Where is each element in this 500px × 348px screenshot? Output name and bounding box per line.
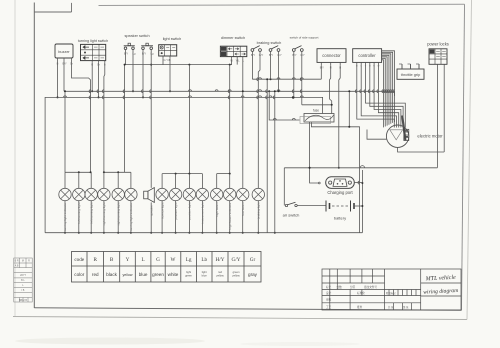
wire bus end drop to battery area bbox=[349, 91, 359, 232]
svg-text:A B: A B bbox=[15, 264, 19, 267]
wire side support pin1 bbox=[293, 51, 295, 97]
svg-text:blue: blue bbox=[139, 272, 148, 277]
lamp braking light bbox=[252, 188, 264, 233]
svg-text:fuse: fuse bbox=[313, 109, 319, 113]
svg-text:共 张: 共 张 bbox=[388, 305, 394, 309]
svg-text:B/Y: B/Y bbox=[142, 52, 146, 56]
svg-text:Y/L: Y/L bbox=[236, 58, 240, 62]
bus line y64 bbox=[125, 59, 232, 65]
wire controller bundle 3 bbox=[382, 54, 391, 124]
wire light sw pin to bar3 feed bbox=[188, 65, 190, 174]
wire buzzer pin2 to bus start bbox=[63, 62, 65, 92]
wire air switch riser bbox=[283, 168, 285, 204]
wire controller pin1 to motor bbox=[355, 62, 394, 127]
svg-text:position light: position light bbox=[174, 202, 178, 219]
svg-text:licence light: licence light bbox=[160, 202, 164, 218]
electric motor M1 bbox=[386, 116, 443, 148]
svg-text:instrument light: instrument light bbox=[201, 202, 205, 223]
svg-text:battery: battery bbox=[334, 216, 346, 221]
braking switch bbox=[251, 40, 282, 57]
svg-text:R: R bbox=[94, 257, 98, 263]
lamp right turning light bbox=[112, 188, 124, 233]
wire power locks pin2 bbox=[443, 64, 445, 152]
svg-text:标记: 标记 bbox=[326, 285, 332, 289]
lamp licence light bbox=[156, 188, 168, 233]
svg-text:light: light bbox=[202, 270, 207, 274]
power locks switch bbox=[427, 42, 449, 65]
wire braking sw2 left bbox=[270, 51, 272, 79]
wire controller pin4 to motor bbox=[368, 62, 403, 127]
wire controller pin5 to motor bbox=[373, 62, 401, 127]
charging loop top line y167.8 bbox=[284, 167, 437, 169]
color code table bbox=[72, 252, 262, 283]
wire controller bundle 5 bbox=[382, 57, 388, 126]
wire battery to charging vertical bbox=[361, 170, 363, 233]
wire controller pin3 to motor bbox=[364, 62, 405, 127]
wire fuse to motor weave bbox=[311, 123, 349, 127]
svg-text:LBYT: LBYT bbox=[20, 274, 27, 277]
svg-text:position light: position light bbox=[188, 202, 192, 219]
bus line y97.4 bbox=[45, 97, 323, 232]
svg-text:Lg: Lg bbox=[186, 257, 192, 263]
wire speaker sw2 right to speaker bbox=[150, 50, 152, 188]
lamp position light bbox=[183, 188, 195, 233]
svg-text:批准: 批准 bbox=[357, 305, 363, 309]
svg-text:high beam indicator: high beam indicator bbox=[228, 203, 232, 230]
svg-text:red: red bbox=[218, 270, 222, 274]
air switch bbox=[283, 202, 326, 217]
wire long vertical to bottom bus B bbox=[274, 91, 276, 232]
title block bbox=[322, 269, 461, 310]
svg-text:right turning light: right turning light bbox=[102, 202, 106, 225]
svg-text:turning light indicator: turning light indicator bbox=[129, 203, 133, 232]
bus line y79.2 bbox=[252, 78, 321, 80]
svg-text:turning light switch: turning light switch bbox=[78, 39, 108, 43]
wire power locks pin1 bbox=[436, 64, 438, 168]
fuse F1 bbox=[300, 109, 334, 124]
svg-text:green: green bbox=[233, 270, 240, 274]
svg-text:B/Y: B/Y bbox=[292, 53, 296, 57]
ground bus bottom bbox=[45, 232, 362, 234]
svg-text:标准化: 标准化 bbox=[357, 291, 365, 295]
wire bar2 mid feed bbox=[124, 65, 126, 173]
wire fuse feed line y104.8 bbox=[302, 105, 332, 114]
wire connector pin3 bbox=[339, 65, 340, 168]
wire braking sw1 left bbox=[251, 51, 253, 79]
wire buzzer pin1 down bbox=[57, 62, 59, 98]
lamp bar group4 bbox=[217, 173, 230, 175]
wire controller bundle 6 bbox=[382, 58, 386, 126]
svg-text:blue: blue bbox=[202, 274, 208, 278]
wire fuse bottom drop bbox=[310, 122, 319, 183]
svg-text:green: green bbox=[152, 272, 164, 277]
charging port bbox=[326, 177, 363, 195]
svg-text:color: color bbox=[74, 272, 84, 277]
svg-text:Charging port: Charging port bbox=[327, 190, 353, 195]
svg-text:left turning light: left turning light bbox=[89, 202, 93, 223]
svg-text:L: L bbox=[142, 257, 145, 263]
wire connector pin1 bbox=[320, 65, 322, 79]
svg-text:high beam: high beam bbox=[215, 202, 219, 217]
svg-text:switch of side support: switch of side support bbox=[290, 36, 319, 40]
wire TLS pin1 to bus bbox=[91, 63, 93, 92]
svg-text:I B: I B bbox=[21, 289, 24, 292]
svg-text:阶段标记: 阶段标记 bbox=[386, 291, 396, 295]
lamp bar group1 bbox=[65, 171, 91, 173]
lamp high beam bbox=[211, 188, 223, 233]
scan smudge bottom bbox=[15, 338, 205, 345]
svg-text:B/Y: B/Y bbox=[251, 53, 255, 57]
svg-text:light: light bbox=[186, 270, 191, 274]
controller pin labels bbox=[356, 66, 380, 68]
svg-text:G: G bbox=[156, 257, 160, 263]
svg-text:controller: controller bbox=[358, 53, 376, 58]
wire light switch pins bbox=[162, 58, 164, 64]
svg-text:white: white bbox=[168, 272, 179, 277]
svg-text:G/Y: G/Y bbox=[300, 53, 305, 57]
svg-text:electric motor: electric motor bbox=[417, 134, 443, 139]
wire speaker sw2 left down bbox=[142, 50, 144, 98]
lamp high beam indicator bbox=[224, 188, 236, 233]
svg-text:工艺: 工艺 bbox=[326, 305, 332, 309]
svg-text:处数: 处数 bbox=[337, 285, 343, 289]
svg-text:审核: 审核 bbox=[326, 297, 332, 301]
svg-text:BB12 B: BB12 B bbox=[19, 299, 28, 302]
svg-text:Lb: Lb bbox=[201, 257, 207, 263]
svg-text:green: green bbox=[185, 274, 192, 278]
svg-text:left turning light: left turning light bbox=[77, 202, 81, 223]
svg-text:air switch: air switch bbox=[283, 213, 300, 218]
lamp left turning light bbox=[73, 188, 85, 233]
svg-text:G/Y: G/Y bbox=[259, 53, 264, 57]
wire dimmer-fed bar4 feed bbox=[229, 65, 231, 174]
svg-text:gray: gray bbox=[248, 272, 258, 277]
wire motor bottom to power lock bbox=[398, 147, 445, 152]
buzzer bbox=[55, 44, 73, 66]
lamp turning light indicator bbox=[59, 188, 71, 233]
lamp bar group2 bbox=[104, 171, 131, 173]
wire controller bundle 7 bbox=[382, 60, 384, 128]
svg-text:power locks: power locks bbox=[427, 42, 449, 47]
svg-text:M: M bbox=[22, 259, 24, 262]
svg-text:yellow: yellow bbox=[216, 274, 224, 278]
svg-text:W: W bbox=[171, 257, 176, 263]
svg-text:B R: B R bbox=[15, 259, 19, 262]
svg-text:第 张: 第 张 bbox=[403, 305, 409, 309]
svg-text:braking light: braking light bbox=[257, 202, 261, 219]
light switch bbox=[159, 37, 182, 62]
dimmer switch bbox=[220, 36, 246, 62]
speaker SP1 bbox=[144, 188, 155, 234]
svg-text:dimmer switch: dimmer switch bbox=[221, 36, 245, 40]
svg-text:buzzer: buzzer bbox=[58, 50, 70, 54]
revision table (left margin) bbox=[14, 258, 32, 302]
svg-text:B/Y: B/Y bbox=[269, 53, 273, 57]
svg-text:B/Y: B/Y bbox=[320, 65, 324, 69]
svg-text:B/Y: B/Y bbox=[63, 62, 67, 66]
wire connector pin2 bbox=[330, 65, 332, 105]
svg-text:yellow: yellow bbox=[232, 274, 240, 278]
svg-text:right turning light: right turning light bbox=[116, 202, 120, 225]
svg-text:throttle grip: throttle grip bbox=[401, 72, 420, 77]
svg-text:yellow: yellow bbox=[123, 273, 133, 277]
svg-text:braking switch: braking switch bbox=[257, 40, 282, 45]
wire braking sw1 right to brake lamp bbox=[258, 51, 260, 188]
lamp right turning light bbox=[98, 188, 110, 233]
throttle grip pin wires bbox=[401, 64, 403, 69]
svg-text:low beam: low beam bbox=[241, 202, 245, 216]
wire speaker sw1 right down bbox=[132, 50, 134, 92]
bus line y91.3 bbox=[64, 91, 395, 96]
svg-text:turning light indicator: turning light indicator bbox=[63, 203, 67, 232]
throttle grip bbox=[397, 64, 424, 79]
svg-text:connector: connector bbox=[322, 53, 341, 58]
svg-text:Gr: Gr bbox=[250, 257, 256, 263]
svg-text:设计: 设计 bbox=[326, 291, 332, 295]
svg-text:light switch: light switch bbox=[163, 37, 182, 41]
switch of side support bbox=[290, 36, 319, 58]
wire controller bundle 1 bbox=[382, 51, 395, 122]
lamp bar group3 bbox=[162, 173, 202, 175]
svg-text:分区: 分区 bbox=[350, 285, 356, 289]
svg-text:Y: Y bbox=[126, 257, 130, 263]
wire controller bundle 2 bbox=[382, 52, 393, 123]
svg-text:B/Y: B/Y bbox=[124, 52, 128, 56]
wire controller pin6 to motor bbox=[377, 62, 399, 127]
svg-text:G/Y: G/Y bbox=[232, 257, 241, 263]
svg-text:code: code bbox=[74, 257, 84, 263]
svg-text:更改文件号: 更改文件号 bbox=[364, 285, 377, 289]
wire dimmer pin2 to bus64 bbox=[236, 59, 238, 65]
svg-text:black: black bbox=[106, 272, 117, 277]
wire motor left stub bbox=[367, 130, 386, 140]
wire fuse left riser bbox=[269, 91, 299, 120]
lamp low beam bbox=[237, 188, 249, 233]
battery BT1 bbox=[326, 201, 362, 221]
speaker switch bbox=[124, 34, 154, 56]
svg-text:speaker switch: speaker switch bbox=[124, 34, 149, 38]
lamp instrument light bbox=[196, 188, 208, 233]
wire buzzer pin3 to lamp bar1 feed bbox=[72, 62, 91, 173]
wire dimmer pin3 to low beam lamp bbox=[242, 59, 244, 189]
wire bar1 left riser bbox=[64, 91, 66, 172]
wire TLS pin2 to bus2 bbox=[98, 63, 100, 98]
svg-text:speaker: speaker bbox=[149, 205, 153, 216]
wire side support pin2 bbox=[301, 51, 303, 104]
svg-text:G/Y: G/Y bbox=[277, 53, 282, 57]
svg-text:H/Y: H/Y bbox=[216, 257, 225, 263]
wire braking sw2 right bbox=[278, 51, 280, 91]
lamp turning light indicator bbox=[125, 188, 137, 233]
wire controller pin2 to motor bbox=[360, 62, 397, 127]
wire TLS pin3 to lamp bar2 bbox=[103, 63, 106, 173]
svg-text:R: R bbox=[28, 259, 30, 262]
lamp position light bbox=[169, 188, 181, 233]
controller bbox=[353, 49, 382, 63]
svg-text:red: red bbox=[92, 272, 99, 277]
wire long vertical to bottom bus A bbox=[266, 79, 268, 233]
connector U-conn bbox=[317, 49, 346, 70]
turning light switch bbox=[78, 39, 108, 67]
svg-text:B: B bbox=[110, 257, 114, 263]
lamp left turning light bbox=[85, 188, 97, 233]
wire speaker sw1 left to bus64 bbox=[125, 50, 127, 65]
wire controller bundle 4 bbox=[382, 55, 389, 124]
